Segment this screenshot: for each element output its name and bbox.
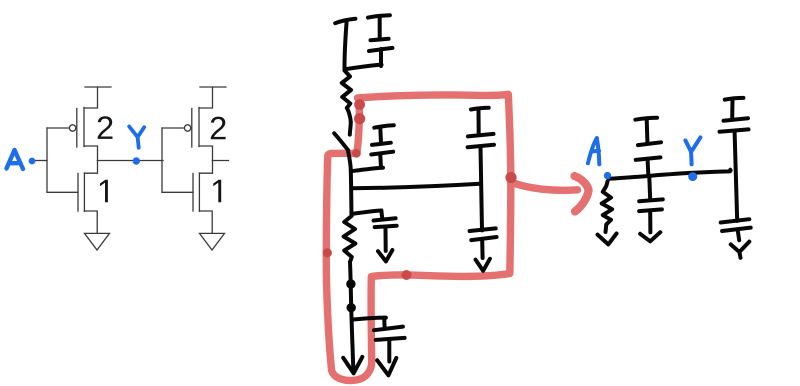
red dot on loop top-right corner <box>354 99 365 110</box>
VDD rail inverter1 <box>85 86 111 88</box>
red dot on loop bottom run <box>402 270 412 280</box>
wire switch to mid node <box>348 151 352 216</box>
ground arrow C3 <box>378 250 392 261</box>
ground inverter1 <box>85 233 110 250</box>
capacitor C5 (load cap stack to VDD tick) <box>468 108 497 258</box>
wire PMOS gate U2 <box>162 127 184 129</box>
red arrow shaft to RC model <box>512 183 578 191</box>
node A dot right (blue) <box>604 172 611 179</box>
wire R2 to ground with junction dots <box>348 262 354 368</box>
transistor P2 (PMOS, label 2) <box>192 87 213 161</box>
label 1 (N2 width) <box>213 180 221 202</box>
ground arrow C5 <box>476 259 490 271</box>
wire input vertical inverter1 <box>46 128 48 192</box>
wire output node Y <box>98 160 164 162</box>
red arrow head <box>575 176 589 212</box>
wire output inverter2 <box>213 160 229 162</box>
label Y (left, blue) <box>129 127 144 148</box>
capacitor C8 (load cap, to VDD tick) <box>720 98 749 221</box>
label Y (right, blue handwritten) <box>685 137 700 164</box>
wire long output to load cap <box>352 184 480 189</box>
red marker pressure dots <box>323 99 517 280</box>
ground arrow R3 <box>598 234 617 245</box>
transistor P2 gate bubble <box>184 125 190 131</box>
wire NMOS gate N2 <box>162 191 193 193</box>
wire PMOS gate U1 <box>47 127 69 129</box>
wire NMOS gate N1 <box>47 191 78 193</box>
node Y dot right (blue) <box>688 172 697 181</box>
transistor P1 gate bubble <box>69 125 75 131</box>
capacitor C3 (drain cap to ground) <box>353 211 397 251</box>
switch SW1 (open, pullup off) <box>334 133 348 150</box>
ground arrow C9 <box>731 232 750 258</box>
node A input wire <box>36 160 48 162</box>
transistor P1 (PMOS, label 2) <box>77 87 98 161</box>
red dot on loop right of switch <box>354 113 365 124</box>
ground arrow C4 <box>377 358 396 375</box>
wire node A to node Y to load <box>609 170 731 179</box>
red dot inner corner <box>352 149 361 158</box>
ground arrow main branch <box>343 357 362 373</box>
capacitor C1 (pullup gate cap to VDD) <box>368 15 392 66</box>
red highlight loop <box>326 94 511 380</box>
ground inverter2 <box>200 233 225 250</box>
resistor R3 (driver resistance) <box>602 182 612 233</box>
VDD rail inverter2 <box>200 86 226 88</box>
node Y dot (blue) <box>133 157 140 164</box>
label 1 (N1 width) <box>100 180 108 202</box>
wire input vertical inverter2 <box>161 128 163 192</box>
transistor N2 (NMOS, label 1) <box>193 161 213 234</box>
resistor R2 (pulldown resistance) <box>344 216 356 262</box>
transistor N1 (NMOS, label 1) <box>78 161 98 234</box>
wire C1 bottom to main rail node <box>345 65 382 70</box>
node A dot (blue) <box>29 158 36 165</box>
label 2 (P1 width) <box>98 116 113 139</box>
red dot on loop left edge <box>323 248 332 257</box>
capacitor C4 (source cap to ground) <box>352 318 405 362</box>
label A (left input, blue) <box>7 150 24 169</box>
wire C2 bottom to mid node <box>351 168 383 172</box>
capacitor C7 (gate cap at Y, to ground) <box>639 177 663 232</box>
label A (right, blue handwritten) <box>588 138 599 164</box>
VDD tick top <box>335 19 355 70</box>
resistor R1 (pullup resistance) <box>342 71 351 135</box>
ground arrow C7 <box>640 232 660 241</box>
capacitor C6 (gate cap at Y, to VDD tick) <box>635 118 661 177</box>
capacitor C2 (NMOS gate cap) <box>371 125 394 167</box>
red dot arrow anchor <box>505 172 516 183</box>
label 2 (P2 width) <box>211 117 226 140</box>
capacitor C9 plates (load cap, to ground) <box>721 219 751 231</box>
